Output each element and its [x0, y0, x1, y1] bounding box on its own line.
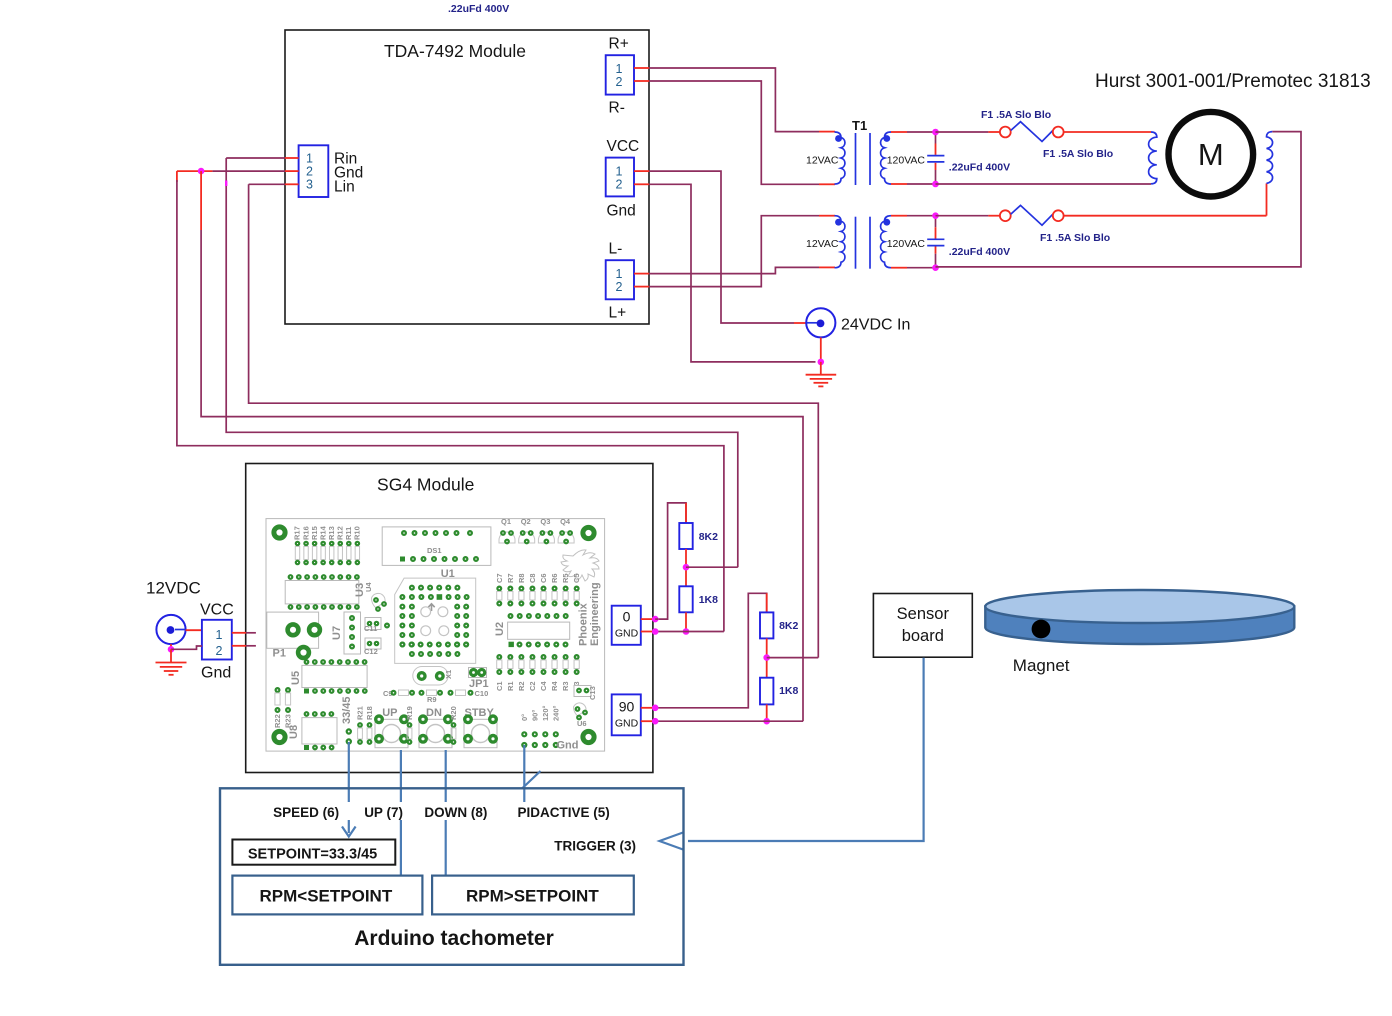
blue line UP from PCB: [400, 750, 402, 876]
svg-text:1: 1: [306, 151, 313, 165]
IC U5: [302, 665, 367, 687]
wire Rin pin1 horizontal: [226, 157, 285, 159]
svg-text:C1: C1: [495, 681, 504, 691]
svg-text:2: 2: [616, 178, 623, 192]
svg-text:DOWN (8): DOWN (8): [424, 805, 487, 820]
junction node secondary top: [932, 129, 939, 136]
wire 0-GND rail: [658, 631, 724, 633]
svg-text:Hurst 3001-001/Premotec 31813: Hurst 3001-001/Premotec 31813: [1095, 71, 1371, 92]
junction ground node: [818, 359, 825, 366]
svg-text:L-: L-: [609, 241, 623, 258]
secondary bottom stub: [891, 267, 907, 269]
fuse F1 .5A Slo Blo: [936, 122, 1064, 142]
svg-text:VCC: VCC: [607, 138, 640, 155]
wire Gnd to divider1 bottom rail: [177, 180, 724, 632]
wire F2 to motor right coil (bottom run): [1064, 215, 1267, 217]
svg-text:SPEED (6): SPEED (6): [273, 805, 339, 820]
pin2 stub: [634, 183, 649, 185]
svg-text:Sensor: Sensor: [897, 605, 950, 623]
svg-text:C4: C4: [539, 681, 548, 691]
pin1 stub: [634, 170, 649, 172]
svg-text:X1: X1: [444, 670, 453, 679]
svg-text:F1 .5A Slo Blo: F1 .5A Slo Blo: [1040, 232, 1110, 244]
pin2 stub: [634, 286, 649, 288]
motor left coil: [1149, 132, 1157, 184]
svg-text:.22uFd 400V: .22uFd 400V: [448, 3, 509, 15]
wire Gnd red segment: [177, 170, 213, 172]
junction Gnd branch: [198, 168, 205, 175]
transistor U4: [372, 593, 386, 608]
svg-text:Gnd: Gnd: [607, 203, 636, 220]
pin 0 stub: [641, 618, 655, 620]
connector VCC/Gnd (12VDC): [200, 602, 256, 682]
svg-text:Q3: Q3: [540, 517, 550, 526]
svg-text:1: 1: [216, 628, 223, 642]
transformer primary polarity dot: [835, 219, 842, 226]
transformer secondary winding: [881, 216, 891, 268]
jack tail: [175, 629, 185, 631]
capacitor .22uFd 400V: [927, 134, 944, 183]
connector J4 L-/L+: [606, 241, 649, 322]
parts C1 R1 R2 C2 C4 R4 R3 C3: [497, 655, 501, 659]
secondary bottom stub: [891, 183, 907, 185]
transformer secondary polarity dot: [883, 135, 890, 142]
svg-text:RPM>SETPOINT: RPM>SETPOINT: [466, 887, 599, 906]
crossing mark: [225, 181, 227, 187]
svg-text:GND: GND: [615, 628, 639, 640]
svg-text:SETPOINT=33.3/45: SETPOINT=33.3/45: [248, 847, 377, 863]
svg-text:RPM<SETPOINT: RPM<SETPOINT: [260, 887, 393, 906]
IC U2: [508, 622, 570, 639]
transformer secondary polarity dot: [883, 219, 890, 226]
wire secondary top to node: [907, 215, 936, 217]
svg-text:Gnd: Gnd: [201, 665, 231, 682]
svg-text:0: 0: [623, 609, 631, 625]
svg-text:8K2: 8K2: [779, 620, 798, 632]
svg-text:R5: R5: [561, 573, 570, 583]
svg-text:R18: R18: [365, 706, 374, 720]
svg-text:R+: R+: [609, 36, 629, 53]
pin1 stub right: [232, 632, 246, 634]
wire 8K2 top to 0 pin: [658, 503, 686, 619]
wire jack to VCC pin1: [186, 629, 202, 631]
wire to ground symbol: [820, 362, 822, 375]
RPM&lt;SETPOINT box: [232, 876, 422, 915]
connector 24VDC In jack: [806, 308, 835, 337]
svg-text:C12: C12: [364, 647, 378, 656]
svg-text:C10: C10: [475, 689, 489, 698]
connector J1 Rin/Gnd/Lin: [285, 145, 363, 197]
svg-text:C11: C11: [364, 624, 377, 633]
phoenix logo: [561, 550, 599, 581]
svg-text:R8: R8: [517, 573, 526, 583]
wire stub T1 primary top: [819, 131, 835, 133]
jumper JP1: [469, 668, 487, 678]
junction 90 pin: [652, 705, 659, 712]
svg-text:C2: C2: [528, 681, 537, 691]
svg-text:Gnd: Gnd: [557, 740, 579, 752]
svg-text:R1: R1: [506, 681, 515, 691]
svg-text:90: 90: [619, 699, 635, 715]
connector 0 / GND: [612, 606, 656, 645]
mounting holes: [274, 527, 285, 538]
pin GND stub: [641, 631, 655, 633]
junction divider2 bottom: [763, 718, 770, 725]
wire 1K8 bottom: [685, 612, 687, 631]
junction divider2 midpoint: [763, 654, 770, 661]
IC U3: [285, 581, 359, 604]
arduino tachometer box: [220, 788, 684, 965]
svg-text:Q2: Q2: [521, 517, 531, 526]
wire divider2 midpoint to Lin: [767, 657, 819, 659]
svg-text:R4: R4: [550, 681, 559, 691]
motor M Hurst/Premotec: [1149, 112, 1273, 197]
svg-text:UP: UP: [382, 707, 397, 719]
stub: [655, 618, 658, 620]
ground symbol (24VDC): [806, 375, 837, 387]
svg-text:12VAC: 12VAC: [806, 238, 839, 250]
wire pin1 into SG4: [246, 632, 256, 634]
wire 90-GND rail: [658, 720, 803, 722]
wire divider1 midpoint to Rin: [686, 566, 738, 568]
crystal X1: [413, 667, 448, 686]
svg-text:P1: P1: [273, 648, 286, 660]
wire Lin pin3 horizontal: [249, 183, 285, 185]
pin GND stub: [641, 720, 655, 722]
white backing for pin labels: [268, 802, 623, 820]
svg-text:C8: C8: [528, 573, 537, 583]
wire ground node to pin2: [171, 646, 202, 649]
svg-text:R3: R3: [561, 681, 570, 691]
junction 0 pin: [652, 616, 659, 623]
svg-text:C13: C13: [588, 686, 597, 700]
svg-text:DN: DN: [426, 707, 442, 719]
svg-text:2: 2: [616, 280, 623, 294]
transformer secondary winding: [881, 132, 891, 184]
wire stub 24VDC jack: [794, 322, 806, 324]
svg-text:R6: R6: [550, 573, 559, 583]
svg-text:1: 1: [616, 267, 623, 281]
junction 12VDC ground node: [168, 646, 175, 653]
pin2 stub right: [232, 645, 246, 647]
svg-text:UP (7): UP (7): [364, 805, 403, 820]
svg-text:3: 3: [306, 178, 313, 192]
svg-text:120VAC: 120VAC: [887, 155, 926, 167]
arrowhead trigger: [660, 833, 684, 850]
pin1 stub: [285, 157, 299, 159]
transformer core line 2: [869, 217, 871, 269]
svg-text:R2: R2: [517, 681, 526, 691]
svg-text:240°: 240°: [552, 705, 561, 721]
RPM&gt;SETPOINT box: [432, 876, 634, 915]
tick on PIDACTIVE line: [522, 771, 541, 789]
wire motor right coil top to T2 secondary bottom: [936, 132, 1302, 267]
connector P1: [267, 612, 319, 648]
parts C13 U6: [574, 686, 591, 697]
svg-text:M: M: [1198, 137, 1224, 172]
wire Rin to divider1 midpoint: [226, 158, 738, 567]
svg-text:TRIGGER (3): TRIGGER (3): [554, 839, 636, 854]
svg-text:R9: R9: [427, 695, 437, 704]
svg-text:SG4 Module: SG4 Module: [377, 475, 474, 495]
connector J2 R+/R-: [606, 36, 649, 117]
svg-text:1: 1: [616, 62, 623, 76]
wire stub T2 primary bottom: [819, 266, 835, 268]
wire 1K8-2 bottom: [766, 704, 768, 721]
wire L- pin1 to T2 primary bottom: [649, 267, 819, 273]
svg-text:2: 2: [216, 644, 223, 658]
svg-text:1K8: 1K8: [779, 685, 798, 697]
pin1 stub: [634, 67, 649, 69]
svg-text:R20: R20: [449, 706, 458, 720]
wire R- pin2 to T1 primary bottom: [649, 81, 819, 184]
svg-text:0°: 0°: [520, 714, 529, 721]
display DS1: [382, 527, 491, 566]
svg-text:8K2: 8K2: [699, 531, 718, 543]
wire 8K2-2 top to 90 pin: [658, 593, 767, 708]
wire secondary bottom to node: [907, 183, 936, 185]
capacitor .22uFd 400V: [927, 217, 944, 266]
svg-text:PIDACTIVE (5): PIDACTIVE (5): [518, 805, 610, 820]
pin1 stub: [634, 273, 649, 275]
wire secondary top to node: [907, 131, 936, 133]
transformer core line 1: [855, 133, 857, 185]
svg-text:Q1: Q1: [501, 517, 511, 526]
svg-text:.22uFd 400V: .22uFd 400V: [949, 162, 1010, 174]
connector 90 / GND: [612, 694, 656, 735]
svg-text:24VDC In: 24VDC In: [841, 317, 910, 334]
sensor board box: [873, 594, 972, 658]
wire up to motor right coil bottom: [1266, 183, 1268, 215]
svg-text:GND: GND: [615, 718, 639, 730]
wire Gnd red corner: [176, 171, 178, 182]
magnet dot: [1032, 620, 1051, 639]
wire Gnd pin2 horizontal: [212, 170, 285, 172]
pin 90 stub: [641, 707, 655, 709]
setpoint box: [232, 840, 395, 865]
secondary top stub: [891, 215, 907, 217]
junction GND pin: [652, 718, 659, 725]
wire VCC pin1 to 24VDC jack: [649, 171, 794, 323]
svg-text:U8: U8: [288, 725, 300, 739]
wire secondary bottom to node: [907, 267, 936, 269]
svg-text:Arduino tachometer: Arduino tachometer: [354, 927, 554, 950]
capacitors C11 C12: [365, 618, 381, 630]
svg-text:C5: C5: [572, 573, 581, 583]
wire Lin to divider2 midpoint: [249, 184, 819, 657]
svg-text:VCC: VCC: [200, 602, 234, 619]
wire stub T2 primary top: [819, 215, 835, 217]
svg-text:12VAC: 12VAC: [806, 155, 839, 167]
svg-text:C6: C6: [539, 573, 548, 583]
transformer primary winding: [835, 132, 845, 184]
amplifier module TDA-7492 box: [285, 30, 649, 324]
svg-text:U2: U2: [494, 622, 506, 636]
svg-text:1: 1: [616, 165, 623, 179]
transformer core line 1: [855, 217, 857, 269]
wire stub T1 primary bottom: [819, 183, 835, 185]
SG4 module box: [246, 464, 653, 773]
svg-text:R10: R10: [353, 526, 362, 540]
svg-text:TDA-7492 Module: TDA-7492 Module: [384, 41, 526, 61]
wire jack to ground: [820, 338, 822, 362]
wire to ground symbol: [170, 649, 172, 662]
svg-text:U4: U4: [364, 582, 373, 592]
wire Gnd branch to divider2 bottom rail: [201, 230, 803, 721]
connector J3 VCC/Gnd: [606, 138, 649, 220]
pin2 stub: [285, 170, 299, 172]
blue line PIDACTIVE from PCB: [523, 745, 525, 802]
svg-text:R21: R21: [356, 706, 365, 720]
svg-text:U7: U7: [331, 626, 343, 640]
svg-text:R22: R22: [273, 714, 282, 728]
svg-text:F1 .5A Slo Blo: F1 .5A Slo Blo: [1043, 148, 1113, 160]
svg-text:R7: R7: [506, 573, 515, 583]
svg-text:.22uFd 400V: .22uFd 400V: [949, 246, 1010, 258]
secondary top stub: [891, 131, 907, 133]
junction node secondary top: [932, 212, 939, 219]
wire 8K2-2 to 1K8-2: [766, 638, 768, 677]
svg-text:U6: U6: [577, 719, 587, 728]
wire sensor board to trigger: [688, 658, 924, 841]
svg-text:Phoenix: Phoenix: [578, 602, 590, 646]
arrowhead SPEED: [342, 827, 356, 837]
wire VCC Gnd pin2 to ground node: [649, 184, 816, 362]
svg-text:Lin: Lin: [334, 179, 355, 196]
svg-text:C7: C7: [495, 573, 504, 583]
junction GND pin: [652, 628, 659, 635]
svg-text:Magnet: Magnet: [1013, 656, 1070, 675]
svg-text:DS1: DS1: [427, 546, 442, 555]
wire jack sleeve to ground: [170, 644, 172, 649]
junction divider1 bottom: [683, 628, 690, 635]
wire 8K2 to 1K8: [685, 549, 687, 586]
transformer primary winding: [835, 216, 845, 268]
pin2 stub: [634, 80, 649, 82]
svg-text:2: 2: [306, 165, 313, 179]
IC U7: [344, 612, 361, 654]
wire R+ pin1 to T1 primary top: [649, 68, 819, 132]
wire F1 to motor left coil top: [1064, 131, 1151, 133]
svg-text:F1 .5A Slo Blo: F1 .5A Slo Blo: [981, 109, 1051, 121]
blue line SPEED from PCB: [348, 742, 350, 833]
svg-text:120VAC: 120VAC: [887, 238, 926, 250]
svg-text:board: board: [902, 627, 944, 645]
red drop to 8K2-2 top: [766, 593, 768, 612]
resistor R 1K8 (divider 1): [679, 586, 692, 612]
motor right coil: [1267, 132, 1273, 184]
junction node secondary bottom: [932, 181, 939, 188]
magnet platter: [985, 590, 1294, 644]
svg-text:2: 2: [616, 75, 623, 89]
junction node secondary bottom: [932, 264, 939, 271]
transformer primary polarity dot: [835, 135, 842, 142]
svg-text:L+: L+: [609, 305, 627, 322]
wire secondary bottom to motor left coil bottom: [936, 183, 1152, 185]
pin3 stub: [285, 183, 299, 185]
junction divider1 midpoint: [683, 564, 690, 571]
svg-text:1K8: 1K8: [699, 594, 718, 606]
wire pin2 into SG4: [246, 645, 256, 647]
svg-text:U5: U5: [290, 671, 302, 685]
jack tail: [806, 322, 817, 324]
svg-text:T1: T1: [852, 118, 867, 133]
svg-text:R19: R19: [405, 706, 414, 720]
IC U8: [302, 718, 337, 744]
transformer core line 2: [869, 133, 871, 185]
svg-text:R-: R-: [609, 100, 625, 117]
svg-text:12VDC: 12VDC: [146, 579, 201, 598]
svg-text:90°: 90°: [531, 710, 540, 721]
resistor R 1K8 (divider 2): [760, 678, 773, 705]
connector 12VDC jack: [156, 615, 185, 644]
SG4 PCB image: [266, 517, 605, 752]
svg-text:Engineering: Engineering: [589, 582, 601, 646]
resistors R22 R23: [276, 688, 280, 692]
svg-text:Q4: Q4: [560, 517, 571, 526]
ground symbol (12VDC): [156, 663, 187, 675]
wire L+ pin2 to T2 primary top: [649, 216, 819, 287]
wire Gnd branch red segment: [200, 171, 202, 230]
svg-text:33/45: 33/45: [341, 696, 353, 724]
svg-text:120°: 120°: [541, 705, 550, 721]
blue line DOWN from PCB: [445, 750, 447, 876]
fuse F1 .5A Slo Blo: [936, 205, 1064, 225]
red drop to 8K2 top: [685, 503, 687, 523]
